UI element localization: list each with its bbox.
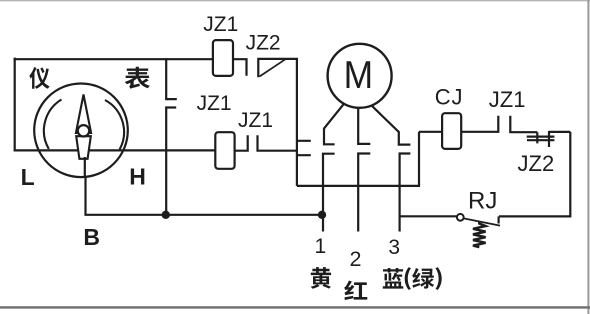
svg-text:H: H (129, 164, 146, 190)
wire JZ1 coil to JZ2 contact (233, 59, 247, 76)
svg-text:M: M (344, 54, 374, 97)
wire gauge stub to B (84, 157, 86, 178)
contact JZ1 (NO) (258, 135, 297, 150)
thermal element RJ heater zigzag (473, 222, 486, 248)
wire terminal3 to RJ (400, 215, 457, 217)
motor lead 3 (right) (372, 106, 411, 145)
contact JZ2 (right, flat) (527, 131, 555, 147)
svg-text:JZ1: JZ1 (203, 13, 238, 36)
wire JZ2 to right drop (549, 131, 570, 133)
gauge needle (76, 95, 91, 134)
gauge pivot (78, 125, 89, 136)
label ( (405, 267, 411, 290)
svg-text:JZ1: JZ1 (197, 92, 232, 115)
svg-text:2: 2 (350, 247, 362, 271)
wire coil to JZ1 contact (235, 135, 248, 150)
connector lower half terminal 2 (358, 154, 370, 232)
svg-text:3: 3 (388, 236, 400, 259)
contact anvil tick RJ (498, 216, 500, 223)
thermal contact RJ pivot circle (457, 214, 464, 221)
label 蓝 blue (383, 268, 403, 289)
svg-text:CJ: CJ (435, 85, 464, 110)
label 绿 green (412, 268, 434, 289)
gauge needle tail (76, 136, 91, 159)
instrument box 仪表 (14, 58, 16, 151)
frame bottom border (0, 306, 590, 308)
svg-text:JZ1: JZ1 (489, 87, 526, 112)
gauge right scale arc (105, 100, 124, 150)
relay coil JZ1 (top) (213, 40, 233, 76)
motor lead 2 (middle) (358, 108, 370, 144)
wire lower bus to CJ riser (297, 132, 419, 186)
motor M circle (328, 44, 392, 108)
svg-text:JZ2: JZ2 (518, 151, 555, 176)
svg-text:JZ2: JZ2 (246, 32, 281, 55)
wire B bus (86, 177, 323, 215)
svg-text:L: L (21, 164, 35, 190)
contact JZ1 (right, NO) (510, 116, 537, 133)
label 黄 yellow (311, 267, 331, 289)
frame top border (0, 0, 590, 2)
wire middle bus (box bottom edge + wire to JZ1 coil 2) (14, 149, 216, 151)
junction dot node B-left (162, 211, 170, 219)
gauge meter circle (34, 84, 128, 178)
frame right border (587, 0, 589, 314)
connector half-pins on drop wire (297, 141, 311, 155)
contact on instrument output (vertical) upper segment (166, 58, 177, 100)
connector lower half terminal 1 (323, 154, 335, 232)
svg-text:RJ: RJ (468, 187, 497, 214)
label ) (435, 267, 441, 290)
label 表 (125, 67, 150, 89)
wire top bus (box top edge + wire to JZ1 coil) (14, 58, 213, 60)
label 红 red (344, 280, 367, 300)
label 仪 (29, 67, 49, 89)
connector lower half terminal 3 (400, 154, 411, 232)
contact lower segment / wire down to B bus (166, 106, 176, 214)
wire CJ coil to JZ1 contact (461, 116, 498, 132)
junction dot node 1 (318, 211, 326, 219)
svg-text:B: B (83, 224, 100, 250)
wire riser to CJ coil (419, 131, 442, 133)
wire right drop to RJ (499, 132, 570, 217)
svg-text:JZ1: JZ1 (238, 109, 273, 132)
wire right drop from JZ2 (296, 59, 298, 186)
gauge left scale arc (44, 100, 62, 150)
svg-text:1: 1 (315, 235, 327, 258)
thermal contact RJ blade (464, 218, 500, 225)
contactor coil CJ (442, 113, 461, 149)
relay coil JZ1 (middle) (215, 132, 234, 169)
contact JZ2 (NC, triangle) (257, 58, 298, 77)
motor lead 1 (left) (324, 104, 344, 144)
